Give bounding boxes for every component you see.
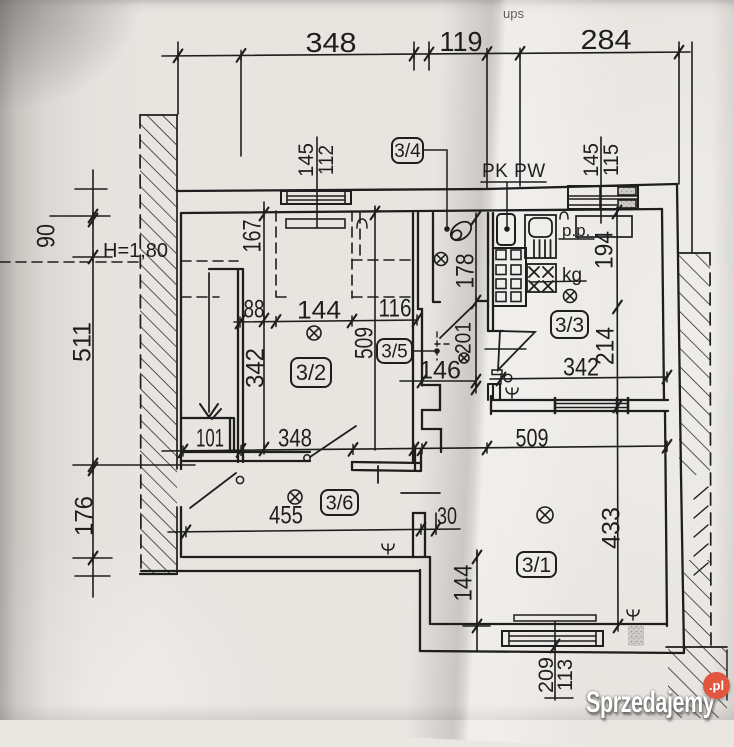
dashed line H=1,80 level	[0, 261, 238, 262]
lamp hall small	[459, 353, 469, 363]
svg-text:88: 88	[244, 295, 265, 323]
svg-text:146: 146	[419, 356, 461, 384]
sink basin unit	[525, 215, 556, 258]
svg-text:342: 342	[241, 348, 269, 388]
short stub below wall	[377, 466, 379, 483]
top exterior wall inner face	[181, 209, 662, 213]
kitchen door leaf triangle	[485, 331, 535, 382]
dashed ceiling-height rect room 3/2	[181, 211, 352, 298]
svg-text:284: 284	[581, 24, 632, 55]
svg-text:176: 176	[70, 496, 98, 536]
svg-text:509: 509	[516, 424, 549, 452]
svg-text:112: 112	[315, 145, 338, 175]
svg-text:3/6: 3/6	[326, 493, 354, 515]
hinge arc mark near 3/2 window	[357, 219, 367, 228]
room label 3/1	[517, 552, 556, 577]
svg-text:PK PW: PK PW	[482, 161, 546, 182]
left dimension line 90/511/176	[89, 170, 98, 597]
left wall inner face with door opening	[180, 213, 182, 557]
kitchen stove squares	[493, 248, 526, 306]
bottom-left wall inner face (room 3/6)	[183, 556, 430, 558]
top exterior wall outer face	[177, 184, 677, 191]
svg-text:101: 101	[196, 424, 224, 452]
dim line 144 room 3/1	[463, 550, 490, 651]
kitchen sink cabinet	[497, 214, 515, 245]
svg-text:90: 90	[32, 224, 60, 248]
svg-text:201: 201	[450, 322, 475, 354]
room 3/1 left step wall	[420, 557, 430, 651]
radiator symbol near door 3/1	[506, 388, 518, 398]
wall between hall and 3/6 upper face	[183, 452, 421, 463]
toilet in bathroom 3/4	[447, 218, 474, 244]
door leaf in left wall	[190, 473, 244, 508]
room label 3/4 with leader	[392, 138, 450, 232]
room 3/1 bottom wall outer face	[420, 651, 684, 653]
svg-text:348: 348	[278, 424, 312, 452]
dim line 209/113 below 3/1	[545, 621, 573, 700]
dim line 342 room 3/3	[490, 371, 671, 386]
bottom-left wall outer face	[140, 571, 420, 574]
svg-text:194: 194	[590, 231, 618, 269]
svg-text:H=1,80: H=1,80	[103, 240, 168, 262]
dim line 509 room 3/2 vertical	[371, 206, 380, 450]
svg-text:p.p.: p.p.	[562, 221, 590, 240]
room 3/1 bottom wall inner face	[432, 623, 666, 625]
svg-text:119: 119	[440, 26, 483, 57]
hinge arc mark near p.p.	[560, 212, 568, 219]
svg-text:348: 348	[306, 27, 357, 58]
svg-text:30: 30	[437, 503, 457, 530]
burner unit with X marks	[527, 264, 556, 292]
right wall outer face	[677, 184, 684, 652]
stair direction arrow	[200, 273, 221, 419]
lamp room 3/1	[537, 507, 553, 523]
wardrobe sill room 3/2	[286, 219, 345, 228]
hatched left exterior wall	[140, 115, 177, 573]
room label 3/3	[551, 311, 588, 338]
svg-text:342: 342	[563, 353, 599, 381]
lamp room 3/2	[307, 326, 321, 340]
hall right wall with chimney jog	[418, 213, 441, 452]
dim line 146	[400, 375, 480, 388]
svg-text:116: 116	[379, 294, 412, 322]
svg-text:511: 511	[68, 322, 96, 362]
glazed panel in 3/3-3/1 wall	[555, 398, 628, 413]
windowsill room 3/1	[514, 615, 596, 621]
hatched right exterior wall lower	[684, 560, 711, 647]
svg-text:3/3: 3/3	[555, 314, 584, 337]
svg-text:167: 167	[238, 220, 266, 253]
wall stub 30	[413, 513, 425, 557]
dim line 167/342 vertical	[260, 202, 269, 455]
wall between hall and 3/6 lower face	[183, 449, 421, 471]
svg-text:178: 178	[451, 254, 479, 289]
top dimension line 348/119/284	[162, 46, 690, 63]
top dim extension lines	[178, 42, 692, 253]
svg-text:509: 509	[350, 327, 378, 359]
hatched bottom-right corner block	[666, 647, 727, 718]
kitchen-bathroom wall	[488, 213, 503, 331]
room label 3/5 with leader	[377, 339, 440, 363]
dim line 101/348/509	[162, 440, 671, 458]
right wall inner face room 3/1	[665, 411, 667, 626]
dim line 455/30	[168, 513, 460, 538]
right wall inner face room 3/3	[662, 209, 664, 400]
dim line 145/112 window 3/2	[316, 137, 318, 228]
window room 3/1	[502, 631, 603, 646]
dim line 178/201 vertical	[472, 212, 481, 395]
radiator symbol 3/1	[627, 610, 639, 620]
stippled wall pier near 3/1 window	[628, 626, 644, 646]
counter edge line under kg	[531, 281, 586, 282]
bathroom 3/4 bottom wall right part	[477, 300, 488, 302]
bathroom door leaf	[435, 303, 476, 360]
svg-text:144: 144	[449, 564, 477, 601]
svg-text:455: 455	[269, 501, 303, 529]
text p.p.	[559, 221, 594, 240]
sparse wall continuation marks right side	[694, 487, 708, 575]
svg-text:433: 433	[597, 507, 625, 549]
hall right wall left face	[412, 213, 414, 462]
left dim cross/extension lines	[50, 189, 195, 576]
niche 101 walls	[181, 418, 234, 452]
bathroom 3/4 left wall	[433, 213, 440, 302]
svg-text:3/2: 3/2	[296, 360, 327, 385]
dim line 88/144/116	[234, 314, 421, 329]
room label 3/2	[291, 358, 331, 387]
dim line 145/115 window 3/3	[600, 137, 602, 223]
dim line 194/214/433 vertical	[613, 206, 623, 633]
svg-text:3/5: 3/5	[381, 342, 407, 363]
svg-text:3/4: 3/4	[394, 141, 421, 162]
door jamb hall to 3/1	[488, 384, 500, 400]
svg-text:144: 144	[297, 296, 341, 324]
svg-text:kg: kg	[562, 265, 582, 286]
svg-text:113: 113	[554, 659, 577, 691]
radiator symbol 3/6	[382, 544, 394, 554]
hatched right exterior wall upper	[679, 253, 711, 648]
svg-text:ups: ups	[503, 6, 524, 21]
step edge line in 3/6	[401, 492, 440, 494]
lamp room 3/3	[564, 290, 577, 303]
counter along top wall in 3/3	[576, 216, 632, 237]
room label 3/6	[321, 490, 358, 515]
wall between 3/3 and 3/1	[491, 396, 668, 414]
lamp bathroom 3/4	[435, 253, 448, 266]
stairwell wall	[209, 269, 243, 462]
dashed lines hall 3/5	[352, 213, 413, 297]
door leaf hall to 3/6	[304, 426, 356, 461]
lamp hall 3/6	[288, 490, 302, 504]
text PK PW with leader	[481, 161, 546, 232]
window kitchen 3/3	[568, 186, 638, 209]
window room 3/2	[281, 191, 351, 204]
svg-text:3/1: 3/1	[522, 554, 551, 577]
svg-text:115: 115	[600, 144, 623, 176]
